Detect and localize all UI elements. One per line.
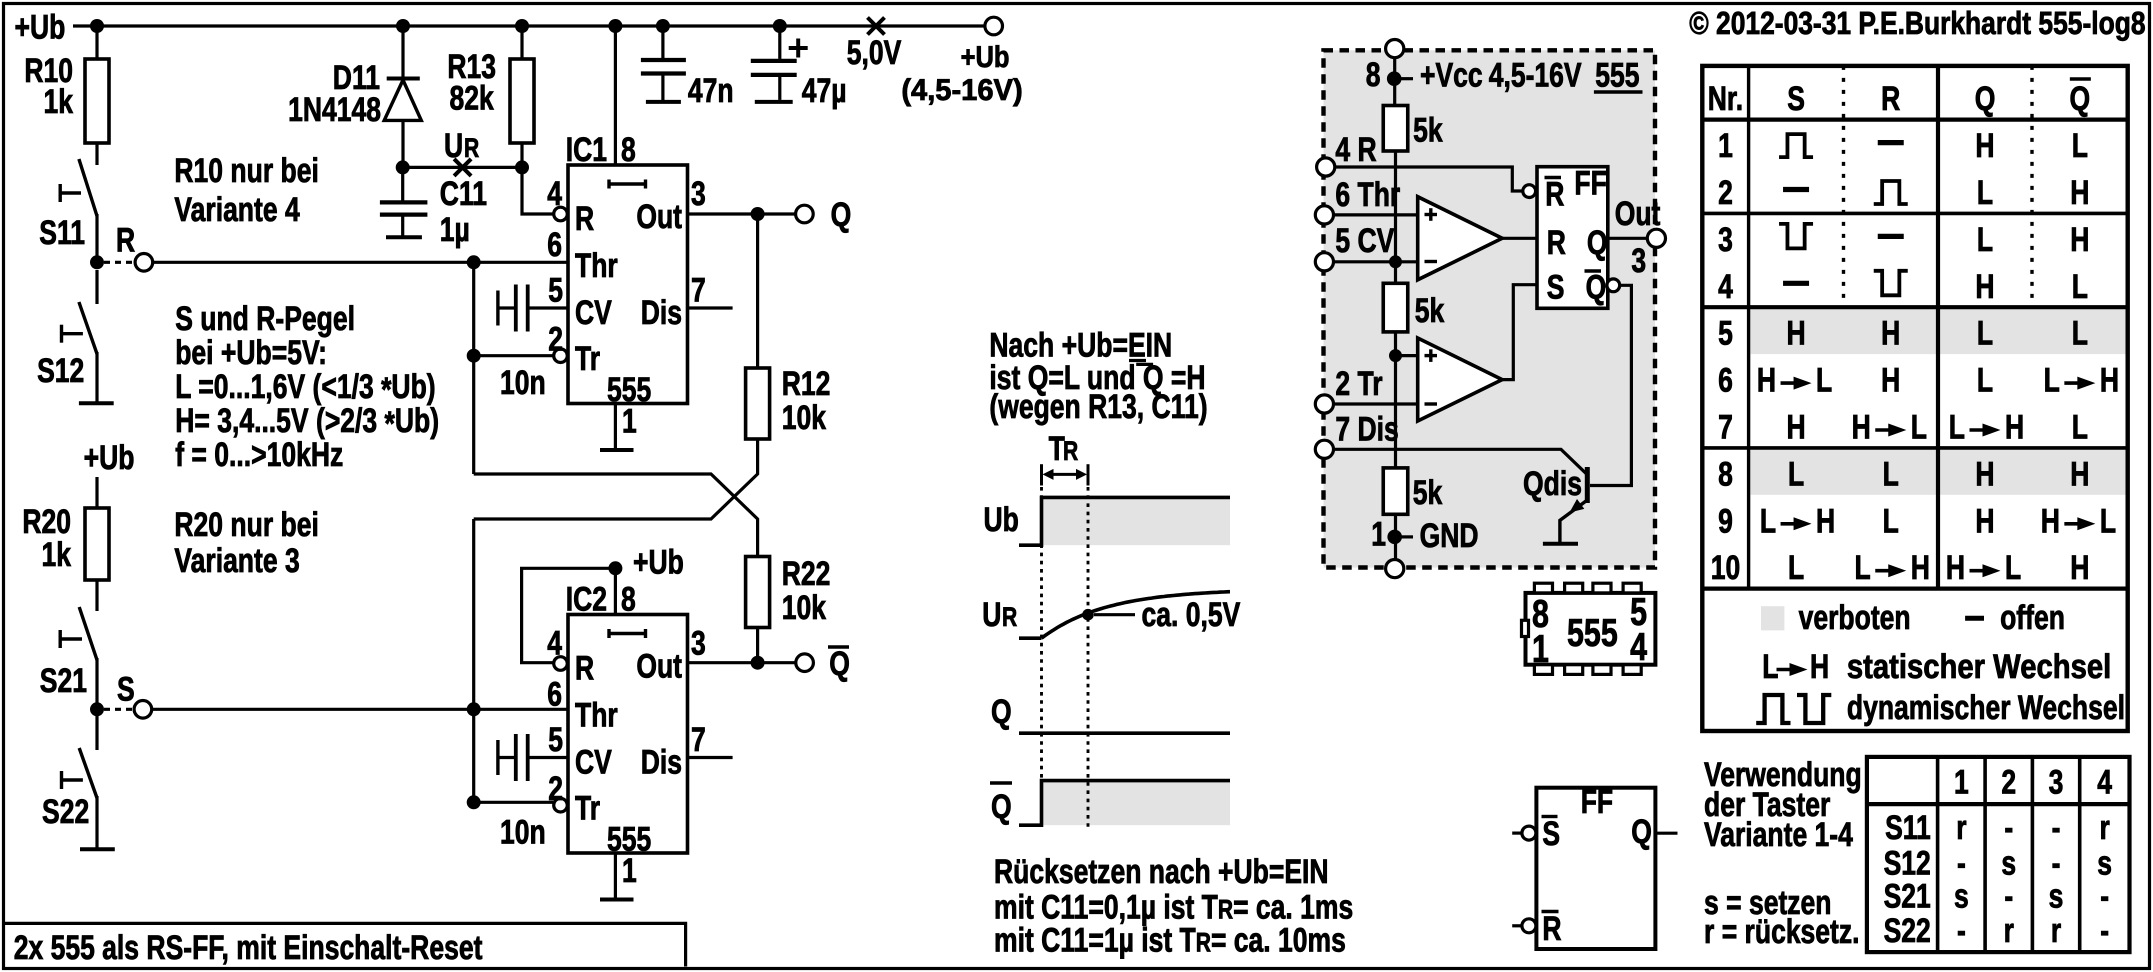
555 DIP package (1522, 583, 1656, 674)
svg-text:5: 5 (1718, 315, 1733, 353)
table taster header (1954, 763, 2112, 801)
svg-text:Out: Out (1615, 195, 1661, 233)
svg-text:R: R (1547, 224, 1566, 262)
svg-text:1: 1 (1954, 763, 1969, 801)
svg-text:Q: Q (1587, 224, 1608, 262)
svg-text:S11: S11 (39, 214, 85, 252)
svg-text:mit C11=1µ ist TR= ca. 10ms: mit C11=1µ ist TR= ca. 10ms (994, 922, 1346, 960)
ground S12 (79, 401, 114, 405)
waveform Q-bar (990, 781, 1230, 826)
svg-text:R: R (1063, 436, 1078, 466)
svg-text:H: H (1881, 362, 1900, 400)
svg-text:H: H (2005, 409, 2024, 447)
resistor R22 (746, 555, 831, 663)
waveform Q (991, 693, 1230, 733)
node IC2 Thr/Tr junction (467, 519, 553, 809)
svg-text:3: 3 (691, 175, 706, 213)
svg-text:H: H (1975, 127, 1994, 165)
svg-text:5k: 5k (1413, 474, 1443, 512)
svg-text:L: L (2005, 549, 2021, 587)
table taster row S11 (1885, 809, 2110, 847)
svg-text:3: 3 (2049, 763, 2064, 801)
table truth table (1702, 66, 2127, 731)
svg-text:10n: 10n (500, 814, 546, 852)
svg-text:R10 nur bei: R10 nur bei (174, 152, 318, 190)
svg-text:1: 1 (1532, 628, 1549, 671)
node 7 Dis input (1315, 410, 1587, 474)
svg-text:8: 8 (1366, 56, 1381, 94)
svg-text:S11: S11 (1885, 809, 1931, 847)
svg-text:5: 5 (548, 721, 563, 759)
svg-text:statischer Wechsel: statischer Wechsel (1847, 648, 2111, 686)
wire S line to IC2 Thr (153, 708, 568, 711)
wire rail junction dots (90, 19, 787, 33)
svg-text:IC1: IC1 (566, 131, 607, 169)
svg-text:(wegen R13, C11): (wegen R13, C11) (989, 388, 1207, 426)
svg-text:4: 4 (1630, 626, 1647, 669)
svg-text:L: L (1977, 362, 1993, 400)
svg-text:r: r (2004, 912, 2014, 950)
table row 5 (1718, 315, 2088, 353)
title box (5, 923, 686, 967)
svg-text:H: H (1852, 409, 1871, 447)
svg-text:9: 9 (1718, 502, 1733, 540)
svg-text:r: r (2051, 912, 2061, 950)
table row 4 (1718, 268, 2088, 306)
node Q output (688, 196, 852, 234)
svg-text:CV: CV (575, 294, 612, 332)
svg-text:Thr: Thr (575, 697, 618, 735)
transistor Qdis (1523, 465, 1587, 544)
svg-text:-: - (2100, 912, 2109, 950)
ground C11 (386, 235, 422, 239)
svg-text:4 R: 4 R (1335, 131, 1376, 169)
flip-flop FF internal (1523, 164, 1620, 308)
svg-text:H: H (2041, 502, 2060, 540)
note R10 variante (174, 152, 318, 229)
svg-text:+Ub: +Ub (15, 9, 66, 47)
svg-text:FF: FF (1574, 164, 1606, 202)
svg-text:10n: 10n (500, 364, 546, 402)
svg-text:-: - (2100, 878, 2109, 916)
resistor 5k middle (1383, 283, 1444, 332)
svg-text:7: 7 (1718, 409, 1733, 447)
svg-text:5 CV: 5 CV (1335, 222, 1394, 260)
note S R Pegel (175, 300, 439, 474)
svg-text:Out: Out (636, 198, 682, 236)
555 internal block diagram (1324, 50, 1656, 567)
svg-text:R: R (116, 222, 135, 260)
svg-text:L: L (2100, 502, 2116, 540)
svg-text:4: 4 (2097, 763, 2112, 801)
ground S22 (80, 847, 115, 851)
wire divider chain (1394, 151, 1397, 468)
svg-text:1: 1 (1371, 516, 1386, 554)
diode D11 (288, 26, 421, 167)
svg-text:Q: Q (1586, 269, 1607, 307)
svg-text:Nr.: Nr. (1708, 80, 1743, 118)
svg-text:S und R-Pegel: S und R-Pegel (175, 300, 355, 338)
wire IC2 pin4 tie high (522, 568, 616, 662)
op-amp comparator lower (1418, 338, 1503, 421)
flip-flop FF symbol (1512, 783, 1677, 949)
table row 2 (1718, 174, 2089, 212)
svg-text:R22: R22 (782, 555, 831, 593)
svg-text:6: 6 (1718, 362, 1733, 400)
node divider comp2 (1389, 349, 1418, 362)
ground Qdis emitter (1543, 542, 1578, 546)
svg-text:U: U (982, 596, 1001, 634)
op-amp IC2 555 timer (498, 580, 733, 899)
op-amp comparator upper (1418, 197, 1503, 280)
svg-text:S: S (1787, 80, 1805, 118)
note R20 variante (174, 506, 318, 580)
svg-text:R: R (464, 133, 479, 163)
node +Vcc pin8 (1366, 40, 1643, 106)
svg-text:CV: CV (575, 744, 612, 782)
svg-text:offen: offen (2000, 599, 2065, 637)
svg-text:47µ: 47µ (802, 72, 847, 110)
table row 6 (1718, 362, 2119, 400)
svg-text:r: r (1956, 809, 1966, 847)
svg-text:S22: S22 (1884, 912, 1931, 950)
resistor 5k lower (1383, 468, 1442, 514)
svg-text:H: H (1975, 268, 1994, 306)
svg-text:H: H (1810, 648, 1829, 686)
svg-text:H: H (1911, 549, 1930, 587)
svg-text:f = 0...>10kHz: f = 0...>10kHz (175, 436, 343, 474)
svg-text:-: - (2052, 809, 2061, 847)
svg-text:Out: Out (636, 648, 682, 686)
svg-text:1N4148: 1N4148 (288, 91, 381, 129)
svg-text:C11: C11 (440, 175, 487, 213)
svg-text:Variante 1-4: Variante 1-4 (1704, 816, 1853, 854)
wire FF Qbar to Qdis base (1590, 285, 1631, 485)
svg-text:R: R (1881, 80, 1900, 118)
table row 10 (1711, 549, 2090, 587)
resistor R12 (746, 214, 831, 439)
switch S12 (37, 270, 97, 403)
svg-text:S: S (1547, 269, 1565, 307)
svg-text:L: L (1855, 549, 1871, 587)
svg-text:1k: 1k (41, 536, 71, 574)
wire R line to IC1 Thr (153, 261, 568, 264)
svg-text:S: S (1542, 815, 1560, 853)
svg-text:6: 6 (547, 226, 562, 264)
table row 7 (1718, 409, 2088, 447)
svg-text:S21: S21 (40, 662, 87, 700)
wire dotted time lines (1042, 487, 1089, 827)
svg-text:L: L (1977, 315, 1993, 353)
node Out pin3 internal (1608, 195, 1666, 280)
svg-text:© 2012-03-31 P.E.Burkhardt 555: © 2012-03-31 P.E.Burkhardt 555-log8 (1689, 5, 2145, 41)
svg-text:10: 10 (1711, 549, 1741, 587)
svg-text:L: L (1949, 409, 1965, 447)
resistor R13 (447, 26, 534, 174)
svg-text:2 Tr: 2 Tr (1335, 365, 1382, 403)
svg-text:L: L (2072, 127, 2088, 165)
svg-text:5k: 5k (1413, 112, 1443, 150)
svg-text:H: H (1816, 502, 1835, 540)
node +Ub terminal right (901, 17, 1022, 107)
svg-text:H: H (2070, 549, 2089, 587)
svg-text:H: H (1757, 362, 1776, 400)
svg-text:r = rücksetz.: r = rücksetz. (1704, 913, 1860, 951)
svg-text:S22: S22 (42, 793, 89, 831)
svg-text:4: 4 (547, 625, 562, 663)
table row 1 (1718, 127, 2088, 165)
node +Ub supply rail (15, 9, 986, 47)
svg-text:S21: S21 (1884, 878, 1931, 916)
ground 47n (646, 100, 681, 104)
switch S21 (40, 607, 97, 709)
table row 8 (1718, 455, 2089, 493)
svg-text:Q: Q (1975, 80, 1996, 118)
svg-text:L: L (1977, 174, 1993, 212)
svg-text:1: 1 (622, 403, 637, 441)
svg-text:L: L (1760, 502, 1776, 540)
node 4 R input (1317, 131, 1522, 191)
svg-text:R: R (1002, 602, 1017, 632)
svg-text:IC2: IC2 (566, 580, 607, 618)
svg-text:6 Thr: 6 Thr (1335, 176, 1400, 214)
svg-text:8: 8 (1718, 455, 1733, 493)
svg-text:+Ub: +Ub (84, 439, 135, 477)
table legend verboten offen (1761, 599, 2065, 637)
svg-text:5k: 5k (1415, 292, 1445, 330)
svg-text:1: 1 (622, 852, 637, 890)
svg-text:s: s (1954, 878, 1969, 916)
svg-text:R: R (1542, 910, 1561, 948)
capacitor C11 (380, 167, 487, 249)
svg-text:L: L (1788, 455, 1804, 493)
svg-text:5,0V: 5,0V (847, 34, 902, 72)
node IC1 Thr/Tr junction (467, 255, 553, 474)
svg-text:FF: FF (1581, 783, 1613, 821)
svg-text:L: L (1788, 549, 1804, 587)
svg-text:Q: Q (2070, 80, 2091, 118)
svg-text:L: L (2072, 315, 2088, 353)
note Ruecksetzen (994, 853, 1353, 960)
svg-text:Dis: Dis (641, 744, 682, 782)
wire IC1 pin8 to rail (614, 26, 617, 165)
waveform Ub (984, 497, 1231, 545)
svg-text:7 Dis: 7 Dis (1335, 410, 1398, 448)
svg-text:H: H (1975, 455, 1994, 493)
svg-text:8: 8 (621, 580, 636, 618)
table row 3 (1718, 221, 2089, 259)
svg-text:1k: 1k (43, 83, 73, 121)
resistor 5k upper (1383, 106, 1442, 152)
node 2 Tr input (1315, 365, 1417, 413)
svg-text:L: L (1977, 221, 1993, 259)
svg-text:Q: Q (829, 645, 850, 683)
svg-text:-: - (1957, 912, 1966, 950)
table row 9 (1718, 502, 2116, 540)
svg-text:Q: Q (991, 788, 1012, 826)
note Verwendung der Taster (1704, 756, 1862, 951)
svg-text:Qdis: Qdis (1523, 465, 1582, 503)
waveform UR (982, 592, 1240, 639)
svg-text:+Ub: +Ub (961, 41, 1010, 74)
svg-text:2: 2 (548, 320, 563, 358)
svg-text:(4,5-16V): (4,5-16V) (901, 74, 1022, 107)
svg-text:L: L (1816, 362, 1832, 400)
table taster variants (1867, 757, 2130, 952)
node S (90, 670, 152, 718)
svg-text:8: 8 (621, 131, 636, 169)
svg-text:5: 5 (548, 272, 563, 310)
capacitor 47n (641, 26, 734, 110)
svg-text:10k: 10k (782, 589, 826, 627)
svg-text:+Ub: +Ub (633, 544, 684, 582)
svg-text:H: H (2070, 174, 2089, 212)
svg-text:2: 2 (1718, 174, 1733, 212)
svg-text:Thr: Thr (575, 247, 618, 285)
svg-text:H: H (2100, 362, 2119, 400)
node GND pin1 (1371, 514, 1478, 577)
svg-text:R: R (1545, 176, 1564, 214)
svg-text:Ub: Ub (984, 501, 1019, 539)
capacitor 47µ (751, 26, 847, 110)
svg-text:H: H (1786, 409, 1805, 447)
svg-text:4: 4 (547, 175, 562, 213)
node UR (396, 127, 522, 176)
svg-text:L: L (1883, 455, 1899, 493)
node Q-bar output (688, 645, 850, 683)
wire R13 node to IC1 pin4 (522, 167, 553, 214)
table taster row S12 (1884, 845, 2112, 883)
svg-text:Tr: Tr (575, 340, 600, 378)
resistor R10 (24, 26, 109, 165)
wire cross coupling (474, 439, 758, 557)
ground 47µ (755, 100, 793, 104)
svg-text:4,5-16V: 4,5-16V (1489, 57, 1582, 95)
svg-text:+Vcc: +Vcc (1420, 57, 1483, 95)
svg-text:1µ: 1µ (440, 211, 470, 249)
svg-text:-: - (2004, 809, 2013, 847)
svg-text:-: - (2004, 878, 2013, 916)
svg-text:bei +Ub=5V:: bei +Ub=5V: (175, 334, 327, 372)
svg-text:3: 3 (1718, 221, 1733, 259)
node TR interval marker (1042, 430, 1089, 486)
svg-text:S: S (117, 670, 135, 708)
svg-text:Tr: Tr (575, 790, 600, 828)
wire comp1 out to FF R (1502, 237, 1537, 240)
svg-text:82k: 82k (450, 80, 494, 118)
svg-text:ca. 0,5V: ca. 0,5V (1142, 596, 1241, 634)
svg-text:U: U (444, 127, 463, 165)
svg-text:3: 3 (1631, 242, 1646, 280)
svg-text:H: H (2070, 221, 2089, 259)
svg-text:Variante 3: Variante 3 (174, 542, 299, 580)
svg-text:555: 555 (1595, 57, 1639, 95)
table legend statischer Wechsel (1762, 648, 2111, 686)
svg-text:4: 4 (1718, 268, 1733, 306)
switch S22 (42, 716, 97, 849)
resistor R20 (22, 503, 109, 611)
table taster row S22 (1884, 912, 2109, 950)
node +Ub IC2 (608, 544, 683, 615)
svg-text:R20 nur bei: R20 nur bei (174, 506, 318, 544)
table header row (1708, 79, 2091, 118)
svg-text:Rücksetzen nach +Ub=EIN: Rücksetzen nach +Ub=EIN (994, 853, 1329, 891)
svg-text:Dis: Dis (641, 294, 682, 332)
svg-text:L: L (2072, 409, 2088, 447)
wire comp2 out to FF S (1502, 285, 1537, 380)
node +Ub lower (84, 439, 135, 508)
svg-text:L: L (1883, 502, 1899, 540)
svg-text:47n: 47n (688, 72, 734, 110)
svg-text:H: H (1786, 315, 1805, 353)
svg-text:555: 555 (1567, 612, 1618, 655)
svg-text:L: L (2072, 268, 2088, 306)
svg-text:Variante 4: Variante 4 (174, 191, 299, 229)
svg-text:R: R (575, 650, 594, 688)
svg-text:Q: Q (991, 693, 1012, 731)
op-amp IC1 555 timer (498, 131, 733, 450)
svg-text:Q: Q (1631, 813, 1652, 851)
svg-text:dynamischer Wechsel: dynamischer Wechsel (1847, 689, 2125, 727)
table legend dynamischer Wechsel (1756, 689, 2125, 727)
svg-text:R: R (575, 200, 594, 238)
switch S11 (39, 159, 97, 262)
svg-text:3: 3 (691, 625, 706, 663)
note Nach +Ub=EIN (989, 327, 1207, 427)
svg-text:verboten: verboten (1799, 599, 1911, 637)
node R (90, 222, 153, 272)
svg-text:r: r (2099, 809, 2109, 847)
svg-text:2: 2 (2001, 763, 2016, 801)
svg-text:S12: S12 (37, 352, 84, 390)
svg-text:GND: GND (1420, 517, 1479, 555)
svg-text:7: 7 (691, 721, 706, 759)
svg-text:1: 1 (1718, 127, 1733, 165)
svg-text:7: 7 (691, 272, 706, 310)
node 5 CV input (1315, 222, 1417, 271)
svg-text:s: s (2049, 878, 2064, 916)
svg-text:10k: 10k (782, 399, 826, 437)
node 5,0V measure point (847, 18, 902, 73)
svg-text:H: H (1881, 315, 1900, 353)
svg-text:H: H (1975, 502, 1994, 540)
svg-text:R12: R12 (782, 365, 831, 403)
svg-text:H: H (2070, 455, 2089, 493)
svg-text:L: L (2044, 362, 2060, 400)
node 6 Thr input (1315, 176, 1417, 224)
svg-text:L: L (1911, 409, 1927, 447)
svg-text:L: L (1762, 648, 1778, 686)
table taster row S21 (1884, 878, 2109, 916)
svg-text:Q: Q (831, 196, 852, 234)
svg-text:2x 555 als RS-FF, mit Einschal: 2x 555 als RS-FF, mit Einschalt-Reset (14, 929, 483, 967)
svg-text:H: H (1946, 549, 1965, 587)
